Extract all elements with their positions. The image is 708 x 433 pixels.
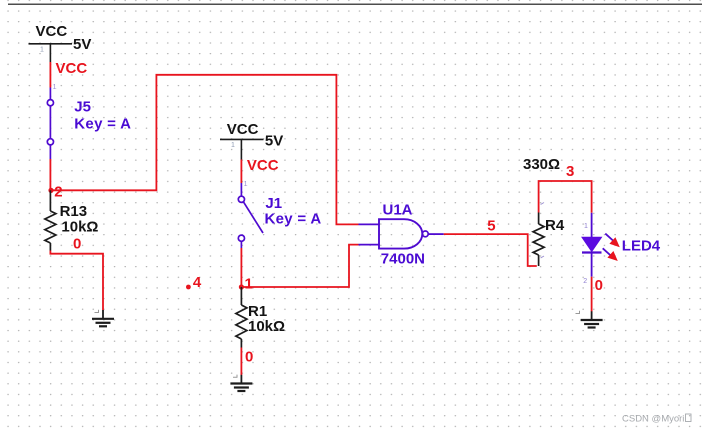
LED4 arrow 2 shaft [603,248,611,255]
svg-text:Key = A: Key = A [265,211,322,228]
svg-text:VCC: VCC [36,23,68,40]
resistor R13 [45,190,56,250]
svg-text:VCC: VCC [247,157,279,174]
svg-text:Key = A: Key = A [74,116,131,133]
svg-text:1: 1 [231,142,235,149]
resistor R1 [236,287,247,348]
nand gate U1A output bubble [422,231,428,237]
svg-text:J1: J1 [265,195,282,212]
svg-text:4: 4 [193,274,202,291]
wire VCC to J5 [49,62,51,88]
svg-text:VCC: VCC [56,60,88,77]
wire gate output to R4 (net 5) [444,234,537,266]
svg-text:2: 2 [583,278,587,285]
svg-text:330Ω: 330Ω [523,156,560,173]
power VCC symbol (J1 branch) [220,139,264,159]
nand gate U1A output stub [428,233,444,235]
svg-text:CSDN @Myori: CSDN @Myori [622,414,684,425]
node 4 junction dot (floating) [186,285,191,290]
nand gate U1A input stubs [359,224,380,244]
ground (LED branch) [581,311,603,327]
pin tick ground 3 [576,311,580,314]
wire R1 to ground [240,348,242,376]
LED4 triangle [582,237,602,251]
svg-text:1: 1 [53,84,57,91]
svg-text:VCC: VCC [227,121,259,138]
svg-text:0: 0 [73,236,81,253]
switch J5 [47,88,53,160]
svg-text:J5: J5 [74,99,91,116]
node 2 junction dot [48,188,53,193]
pin tick ground 1 [95,310,99,313]
top sheet border [8,3,702,5]
svg-text:R13: R13 [60,203,88,220]
wire node 1 to gate input B [241,245,358,287]
svg-text:1: 1 [245,276,253,293]
ground (R13 branch) [92,310,114,326]
svg-text:0: 0 [245,349,253,366]
wire VCC to J1 [240,160,242,184]
pin tick ground 2 [233,375,237,378]
svg-text:LED4: LED4 [622,237,661,254]
LED4 cathode lead [591,254,593,277]
wire node 2 to gate input A [50,75,358,225]
svg-text:5: 5 [487,218,495,235]
svg-text:0: 0 [595,277,603,294]
wire R13 to ground [50,251,103,311]
wire J5 to node 2 [49,159,51,190]
power VCC symbol (J5 branch) [29,44,73,62]
svg-text:7400N: 7400N [381,251,425,268]
LED4 cathode bar [582,251,602,253]
svg-text:10kΩ: 10kΩ [61,219,98,236]
ground (R1 branch) [230,375,252,391]
wire J1 to node 1 [240,248,242,287]
svg-text:5V: 5V [265,132,283,149]
svg-text:R4: R4 [545,217,565,234]
resistor R4 [533,213,544,267]
wire R4 top to LED (net 3) [539,181,592,213]
svg-text:1: 1 [584,223,588,230]
switch J1 (open) [238,183,263,248]
pin tick R4 bottom [541,256,544,258]
svg-text:5V: 5V [73,36,91,53]
pin tick R4 top [541,203,544,205]
LED4 arrow 2 head [607,251,617,261]
svg-text:1: 1 [40,47,44,54]
wire LED to ground (net 0) [591,277,593,312]
node 1 junction dot [239,284,244,289]
LED4 anode lead [591,213,593,238]
LED4 arrow 1 shaft [605,234,613,241]
nand gate U1A body [379,219,422,248]
svg-text:U1A: U1A [383,202,413,219]
svg-text:3: 3 [566,163,574,180]
LED4 arrow 1 head [609,237,619,247]
svg-text:1: 1 [244,181,248,188]
svg-text:2: 2 [54,184,62,201]
svg-text:10kΩ: 10kΩ [248,318,285,335]
